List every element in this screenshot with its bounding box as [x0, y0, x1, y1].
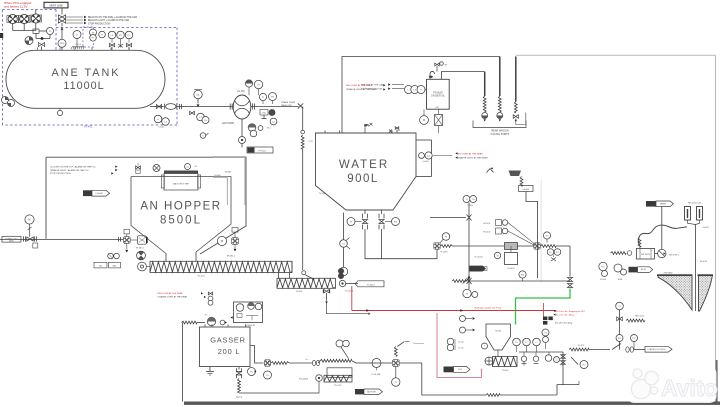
AN hopper outer shell: [46, 157, 246, 254]
MV-402 pilot: [484, 228, 535, 246]
hopper enclosure inlet line: [0, 237, 123, 242]
suction instrument bubbles: [197, 113, 209, 123]
oil pump tag: [475, 257, 484, 259]
seal pot box: [33, 29, 39, 33]
gasser outlet 4way: [264, 360, 270, 366]
bubble Ld: [270, 118, 277, 125]
outlet coupling: [177, 104, 193, 109]
hopper tag flag: [83, 190, 110, 196]
wagon line alarm text: [346, 84, 386, 91]
inlet motor valve: [24, 236, 38, 248]
reel return line: [239, 381, 319, 393]
top valve under PSV-B: [126, 43, 131, 50]
flame arrestor FA3: [30, 14, 42, 23]
svg-text:LOADING OF TRUCK: LOADING OF TRUCK: [647, 348, 666, 351]
low level switch LSL: [194, 90, 202, 107]
svg-text:Pu: Pu: [205, 315, 207, 317]
relief valve stack PSV: [58, 15, 65, 30]
hydraulic box: [327, 368, 352, 378]
svg-text:MIXER: MIXER: [660, 203, 667, 205]
instrument bubbles PI/PT pair: [90, 29, 97, 41]
discharge instrument TI: [259, 93, 266, 104]
svg-text:LG-4B: LG-4B: [158, 127, 164, 129]
svg-text:C of G: C of G: [75, 44, 81, 46]
PI cluster: [447, 338, 464, 351]
svg-text:AV 40: AV 40: [641, 268, 646, 271]
mixer flag top: [646, 201, 673, 207]
red alarm rows right: [554, 310, 586, 325]
hose reel label: [334, 385, 342, 387]
water top-right valve: [389, 127, 400, 133]
red tag text: [345, 291, 354, 293]
fill ports bracket: [473, 121, 526, 128]
gasser vessel: [200, 327, 251, 367]
water bottom nozzles: [365, 210, 382, 214]
MV-401 pilot: [484, 220, 535, 245]
loading flag: [645, 346, 672, 352]
hopper outlet chute: [166, 252, 196, 261]
tank outlet valve: [156, 105, 161, 109]
svg-text:TU-402: TU-402: [296, 291, 304, 293]
svg-text:TK-401: TK-401: [84, 125, 93, 129]
svg-text:TPI 401: TPI 401: [258, 150, 266, 152]
svg-text:LS-402: LS-402: [422, 161, 428, 163]
cyclone LSL: [482, 343, 488, 349]
cyclone bubbles row: [513, 338, 541, 346]
water trace branch: [343, 213, 345, 268]
svg-text:M: M: [28, 217, 30, 221]
svg-text:NRV 4-5/1: NRV 4-5/1: [635, 315, 645, 317]
svg-text:Hydraulics before the Pump: Hydraulics before the Pump: [475, 307, 503, 310]
solenoid block: [543, 303, 553, 325]
screw conveyor TU-401: [150, 261, 292, 272]
pressure gauge PI-1: [39, 28, 54, 35]
svg-text:M: M: [497, 255, 499, 257]
svg-text:L: L: [484, 346, 485, 348]
reel rotary: [299, 375, 322, 382]
svg-text:LD LIGHT ON THE TOP - ALARM ON: LD LIGHT ON THE TOP - ALARM ON THE PLC: [50, 165, 96, 168]
svg-text:LSH-4B: LSH-4B: [95, 193, 103, 195]
svg-text:RED LIGHT AT THE REAR: RED LIGHT AT THE REAR: [158, 292, 184, 295]
prill conveyor TU-502: [493, 357, 518, 372]
emulsion 4way: [381, 360, 399, 367]
sample box: [260, 110, 268, 119]
fill ports label: [491, 130, 510, 136]
svg-text:TG: TG: [545, 235, 548, 237]
svg-text:40-4070: 40-4070: [700, 261, 707, 263]
blue tank tag text: [84, 125, 93, 129]
takeoff isolation valve: [298, 103, 303, 108]
svg-text:ANE TANK: ANE TANK: [52, 67, 121, 79]
water outlet valve A: [362, 214, 367, 230]
drop valves: [521, 352, 559, 366]
svg-text:AN HOSE: AN HOSE: [367, 390, 376, 393]
cyclone feed arrows: [460, 316, 476, 334]
svg-text:BAG SPLITTER: BAG SPLITTER: [173, 182, 189, 185]
page edge line right-top: [516, 54, 716, 56]
water tank top nozzles: [325, 130, 397, 133]
LB-404 box: [519, 186, 534, 192]
TG bubble: [543, 232, 550, 243]
svg-text:RED LIGHT AT THE REAR: RED LIGHT AT THE REAR: [346, 84, 372, 87]
hopper right discharge: [217, 228, 238, 258]
svg-text:(AN PUMP): (AN PUMP): [222, 122, 234, 125]
down valves to green: [567, 278, 572, 288]
dosing bubbles: [248, 124, 272, 137]
svg-text:Connection: Connection: [413, 342, 425, 345]
svg-text:BEACON LIGHT + ALARM IN THE CA: BEACON LIGHT + ALARM IN THE CAB: [88, 19, 129, 22]
watermark plate: [627, 367, 717, 404]
svg-text:TK-503: TK-503: [495, 331, 502, 333]
pit ground wedge left: [657, 275, 692, 310]
svg-text:PG: PG: [618, 338, 621, 340]
svg-text:40 s aft +30 s delay: 40 s aft +30 s delay: [556, 314, 575, 317]
oil pump skid motor: [494, 246, 517, 270]
svg-text:M: M: [423, 118, 425, 122]
discharge line: [251, 104, 299, 110]
branch pump bubble: [339, 267, 347, 275]
svg-text:LG: LG: [164, 121, 167, 123]
reel bubbles: [336, 340, 349, 359]
water tank vent: [364, 123, 373, 131]
flame arrestor FA1: [7, 14, 19, 23]
svg-text:AN HOPPER: AN HOPPER: [140, 201, 221, 213]
vent header label box: [44, 2, 68, 8]
emulsion matrix line W: [434, 233, 504, 254]
hose labels top: [688, 203, 702, 205]
hopper level valve stack: [136, 164, 141, 174]
rotary airlock flag: [444, 367, 470, 373]
svg-text:M-40B: M-40B: [225, 171, 232, 173]
conveyor interlock stack: [208, 292, 213, 305]
svg-text:BF-4B1-2: BF-4B1-2: [227, 256, 235, 258]
svg-text:MV-401: MV-401: [484, 223, 492, 225]
emulsion pump FI: [356, 359, 381, 376]
pump discharge pressure bubbles: [245, 80, 262, 95]
wagon vapor header: [342, 57, 500, 134]
gasser bottom pumps: [248, 368, 272, 380]
hose couplings: [305, 359, 319, 366]
svg-text:ORANGE LIGHT AT THE REAR: ORANGE LIGHT AT THE REAR: [346, 88, 377, 91]
solenoid bubbles: [542, 329, 549, 349]
inlet tag box: [2, 236, 21, 242]
ANE tank label: [52, 67, 121, 92]
svg-text:40 s aft +30 s Stopping the PL: 40 s aft +30 s Stopping the PLC: [556, 310, 585, 313]
fill hose 3: [513, 102, 526, 125]
svg-text:11000L: 11000L: [63, 80, 104, 92]
conveyor label: [197, 275, 205, 277]
mixer pump bubble: [655, 249, 679, 257]
fill hose 2: [497, 96, 503, 122]
tank top valve V-1: [38, 43, 44, 51]
svg-text:+CW: +CW: [308, 141, 313, 143]
over-box squiggle: [318, 359, 356, 363]
svg-text:40s after 30s delay: 40s after 30s delay: [555, 321, 573, 324]
svg-text:TRAILER: TRAILER: [433, 92, 443, 95]
svg-text:TG: TG: [472, 199, 475, 201]
flame arrestor FA2: [18, 14, 30, 23]
svg-text:TK-5: TK-5: [458, 369, 462, 371]
svg-text:Pu 402-1: Pu 402-1: [367, 284, 376, 286]
page bottom dark bar: [184, 402, 720, 405]
suction branch valve: [190, 111, 195, 114]
trailer tank bubbles: [405, 86, 427, 94]
gasser drain: [206, 367, 214, 376]
svg-text:GASSER OIL: GASSER OIL: [431, 95, 446, 98]
svg-text:Pu 402-4: Pu 402-4: [345, 291, 354, 293]
TI bubbles pair: [463, 196, 477, 207]
svg-text:GASSER: GASSER: [210, 336, 246, 345]
loading line: [569, 345, 610, 351]
svg-text:STOP PRODUCTION: STOP PRODUCTION: [88, 23, 111, 25]
inline filter: [505, 243, 518, 250]
level indicator LI-1: [25, 37, 33, 45]
trailer gasser oil tank: [427, 79, 450, 109]
watermark text: [661, 375, 718, 401]
svg-text:SPARE PUMP: SPARE PUMP: [281, 101, 296, 104]
svg-text:NR 407B: NR 407B: [641, 254, 650, 256]
svg-text:PU-4CP: PU-4CP: [334, 385, 342, 387]
svg-text:BAG: BAG: [113, 264, 117, 267]
NRV branch: [616, 302, 645, 349]
svg-text:WATER: WATER: [339, 159, 389, 171]
svg-text:TU-502: TU-502: [502, 370, 510, 372]
red hydraulic note: [475, 307, 503, 310]
svg-text:PG: PG: [521, 274, 524, 276]
svg-text:TAKE-OFF: TAKE-OFF: [281, 104, 292, 107]
gasser feed end valve: [302, 271, 315, 281]
cooling water valve line: [430, 215, 472, 221]
screw conveyor TU-402: [277, 278, 336, 288]
conveyor tags: [94, 262, 121, 268]
transfer rise: [557, 385, 579, 395]
bubble drops: [517, 346, 564, 352]
svg-text:TI-403: TI-403: [467, 205, 472, 207]
connection drop: [394, 342, 424, 357]
page edge line right side: [716, 55, 717, 403]
third fill drop: [515, 57, 517, 102]
mixer flag: [629, 267, 653, 273]
tank west level bridles: [2, 97, 15, 107]
loading switch: [612, 344, 645, 353]
water outlet bubble PI: [347, 218, 362, 226]
trailer tank vent: [429, 71, 435, 79]
instrument bubble LT-401: [73, 31, 81, 48]
svg-text:+45: +45: [194, 166, 197, 168]
hopper level bubble: [153, 165, 160, 172]
CO2 purge bubble: [200, 133, 208, 139]
hopper left discharge: [123, 230, 147, 260]
hydraulic loop west leg: [182, 323, 184, 402]
dosing skid box: [231, 302, 263, 327]
svg-text:PL-B-40B: PL-B-40B: [372, 374, 381, 376]
inline pump body: [165, 104, 177, 110]
density bubbles: [547, 249, 561, 261]
green emulsion line: [516, 289, 571, 325]
svg-text:PU-40B-M: PU-40B-M: [299, 379, 309, 381]
ANE storage tank TK-401 shell: [6, 50, 165, 108]
dosing control box: [242, 144, 273, 154]
svg-text:and battery 11.5V: and battery 11.5V: [4, 4, 27, 8]
utility drop leg: [468, 203, 470, 279]
black feed drop: [327, 304, 371, 315]
AN hopper label: [140, 201, 221, 227]
standpipe bubbles LI/LS: [419, 152, 433, 163]
bag splitter: [161, 171, 200, 191]
svg-text:+D4070: +D4070: [702, 227, 709, 229]
gasser feed drop: [301, 107, 313, 271]
conveyor2 drive: [338, 268, 346, 287]
svg-text:STOP PRODUCTION: STOP PRODUCTION: [50, 173, 71, 175]
pit label: [664, 272, 673, 274]
tank outlet line: [150, 106, 164, 108]
pump drain drop: [241, 119, 243, 137]
page fold faint line: [540, 180, 542, 282]
junction node: [36, 33, 50, 39]
gasser feed pump: [205, 315, 216, 326]
platform hatch mark: [71, 44, 84, 49]
red hydraulic supply: [352, 286, 556, 312]
trailer oil feed line: [442, 72, 485, 96]
svg-text:SL-4CS: SL-4CS: [578, 345, 585, 347]
conveyor alarm rows: [158, 292, 207, 299]
svg-text:NH 4070-1/-1B: NH 4070-1/-1B: [688, 203, 702, 205]
dark bubble: [269, 110, 275, 116]
left edge tag: [0, 33, 3, 38]
trailer alarm rows: [361, 83, 404, 90]
conveyor motor: [138, 262, 150, 271]
instrument bubble PSV-A: [117, 31, 125, 47]
instrument bubble TI-401: [99, 31, 106, 38]
oil skid flag: [470, 266, 488, 271]
water suction header: [365, 229, 437, 259]
fill hose arm B: [697, 207, 703, 221]
transfer to right: [399, 363, 557, 396]
mixer riser: [661, 207, 663, 250]
hose arms join: [688, 220, 709, 229]
blue dashed battery-limit boundary: [3, 10, 178, 126]
fill hose 1: [482, 96, 488, 122]
water standpipe: [416, 140, 432, 177]
LB-404 drop: [526, 192, 538, 279]
svg-text:Pu-403-1: Pu-403-1: [475, 257, 484, 259]
main AN solution line: [193, 104, 233, 110]
svg-text:Avito: Avito: [661, 375, 718, 401]
svg-text:PU-406: PU-406: [600, 279, 606, 281]
wire vent box to relief stack: [61, 8, 63, 15]
mixer suction squiggle: [611, 251, 632, 256]
gasser label: [210, 336, 246, 357]
svg-text:VENT LINE: VENT LINE: [49, 3, 63, 7]
svg-text:MV-402: MV-402: [484, 232, 492, 234]
svg-text:Pu-401: Pu-401: [237, 91, 245, 93]
svg-text:Drying: Drying: [236, 396, 243, 399]
red note text: [4, 1, 32, 8]
svg-text:M: M: [221, 239, 223, 243]
mix pumps PU-407: [614, 264, 627, 281]
svg-text:FL-4076: FL-4076: [440, 252, 447, 254]
watermark logo: [631, 369, 658, 399]
gasser top nozzles: [205, 324, 246, 327]
bag splitter bubble LD: [185, 164, 198, 170]
delivery S hose: [638, 225, 687, 247]
pump label: [222, 122, 234, 125]
svg-text:900L: 900L: [347, 173, 379, 185]
below bubble TI: [392, 366, 400, 386]
fill hose arm A: [685, 207, 691, 221]
svg-text:8500L: 8500L: [160, 215, 202, 227]
gas oil line: [452, 278, 570, 284]
svg-text:NR 407B-1: NR 407B-1: [669, 254, 679, 256]
svg-text:Tk-402: Tk-402: [319, 193, 327, 195]
svg-text:RED LIGHT AT THE REAR: RED LIGHT AT THE REAR: [457, 152, 483, 155]
drop pipe to pit: [696, 225, 707, 312]
tank top nozzles: [38, 48, 130, 51]
svg-text:GROUND: GROUND: [664, 272, 673, 274]
relief to drain: [487, 167, 522, 176]
svg-text:TU-401: TU-401: [197, 275, 205, 277]
solution down leg: [569, 246, 571, 277]
water tank TK-402 shell: [316, 133, 417, 210]
matrix line center: [518, 243, 571, 249]
svg-text:PG: PG: [394, 221, 397, 223]
PG PRV bubbles: [616, 335, 638, 350]
top valve under LSH: [109, 43, 114, 50]
trailer vent valve: [435, 62, 448, 72]
gasser inlet squiggle: [182, 321, 206, 324]
relief bubble on tank: [58, 27, 66, 51]
svg-text:ORANGE LIGHT - ALARM ON THE PL: ORANGE LIGHT - ALARM ON THE PLC: [50, 169, 89, 172]
hopper alarm rows: [50, 165, 118, 175]
water tank label: [339, 159, 389, 185]
svg-text:ORANGE LIGHT AT THE REAR: ORANGE LIGHT AT THE REAR: [158, 296, 188, 299]
svg-text:1543: 1543: [396, 130, 400, 132]
gasser outlet route: [250, 346, 264, 364]
alarm text rows: [88, 16, 137, 25]
drain hose coil: [520, 177, 523, 187]
trailer pump M bubble: [420, 109, 429, 124]
cyclone rotary valve: [485, 350, 498, 365]
distribution valves: [561, 352, 588, 385]
outlet squiggle: [271, 362, 312, 365]
TU-402 label: [296, 291, 304, 293]
pink hydraulic return: [437, 313, 483, 378]
water outlet bubble PG: [385, 218, 400, 226]
hose reel conveyor: [324, 375, 352, 382]
svg-text:BI-40B: BI-40B: [215, 175, 222, 177]
svg-text:ORANGE LIGHT AT THE REAR: ORANGE LIGHT AT THE REAR: [457, 157, 488, 160]
static mixer NR-407B: [637, 248, 655, 259]
prill cyclone TK-503: [486, 324, 511, 350]
standpipe alarm red text: [433, 152, 488, 160]
blue dashed instrument box: [83, 27, 94, 47]
water outlet valve B: [379, 214, 384, 230]
inlet valve actuator: [25, 215, 34, 237]
gray module corner outer: [213, 157, 245, 205]
conveyor transfer chute: [279, 261, 293, 278]
svg-text:B +50: B +50: [458, 342, 464, 344]
AN hopper inner wall: [131, 177, 231, 254]
arrestor manifold wires: [13, 10, 36, 31]
svg-text:PSV: PSV: [60, 43, 65, 45]
PG bubble on line: [519, 271, 526, 281]
hose flag: [355, 389, 382, 394]
drain bubble: [239, 137, 246, 144]
conveyor2 bottom valve: [323, 289, 330, 304]
below-tank instrument pair LI/LG: [154, 115, 169, 128]
svg-text:LB-404: LB-404: [522, 189, 529, 191]
conveyor bubbles: [108, 253, 120, 259]
